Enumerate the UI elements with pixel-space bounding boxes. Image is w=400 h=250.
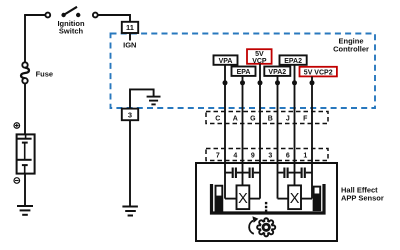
capacitor C-C — [278, 168, 295, 179]
svg-text:X: X — [290, 191, 300, 207]
wire 5V VCP2 (w6) — [311, 76, 313, 198]
svg-text:B: B — [268, 115, 273, 122]
magnet M2 (right, lower pole filled) — [314, 187, 321, 211]
wire VPA2 (w4) — [277, 76, 279, 199]
wire: stub into hall element 2 left — [278, 198, 289, 200]
net label EPA — [232, 67, 256, 77]
svg-text:VPA2: VPA2 — [268, 69, 286, 76]
svg-text:F: F — [303, 115, 308, 122]
wire VPA (w1) — [224, 64, 226, 198]
magnet yoke bracket — [212, 184, 325, 213]
svg-text:A: A — [233, 115, 238, 122]
svg-text:C: C — [215, 115, 220, 122]
capacitor C-D — [295, 168, 313, 179]
wire: stub into hall element 1 right — [249, 198, 260, 200]
battery BAT1 — [17, 134, 35, 173]
pedal rotation arrow — [249, 216, 258, 234]
battery negative terminal marker — [14, 178, 20, 184]
hall element U1 (X box) — [237, 185, 250, 209]
wire: battery positive feed (vertical left) — [24, 15, 26, 63]
svg-text:6: 6 — [286, 152, 290, 159]
svg-text:3: 3 — [268, 152, 272, 159]
svg-text:Controller: Controller — [333, 44, 369, 53]
net label VPA2 — [264, 67, 290, 77]
wire: stub into hall element 1 left — [225, 198, 237, 200]
wire: switch to pin 11 — [98, 15, 130, 22]
junction on wire EPA2 — [292, 80, 297, 85]
svg-text:1: 1 — [303, 152, 307, 159]
junction on wire VPA — [223, 80, 228, 85]
wire: pin 3 to chassis ground — [129, 120, 131, 206]
connector C1 (controller side) — [206, 112, 328, 124]
svg-text:11: 11 — [126, 23, 134, 32]
hall element U2 (X box) — [288, 185, 301, 209]
net label EPA2 — [280, 55, 307, 65]
magnet M1 (left, lower pole filled) — [216, 186, 223, 211]
svg-text:4: 4 — [233, 152, 237, 159]
wire 5V VCP (w3) — [259, 64, 261, 199]
ground (chassis, below pin 3) — [122, 207, 137, 216]
svg-text:VPA: VPA — [219, 58, 233, 65]
svg-text:G: G — [250, 115, 256, 122]
svg-text:APP Sensor: APP Sensor — [341, 194, 384, 203]
junction on wire 5V VCP2 — [310, 80, 315, 85]
capacitor C-A — [225, 168, 243, 179]
svg-text:3: 3 — [128, 110, 132, 119]
wire EPA (w2) — [242, 76, 244, 186]
wire: battery to ground — [24, 174, 26, 206]
net label 5V VCP2 (red) — [300, 67, 337, 77]
junction on wire VPA2 — [275, 80, 280, 85]
svg-text:Switch: Switch — [59, 27, 84, 36]
separation dotted line — [265, 202, 267, 212]
fuse F1 — [21, 62, 29, 83]
engine controller label — [333, 37, 369, 54]
svg-text:7: 7 — [216, 152, 220, 159]
wire: controller internal ground run — [130, 89, 154, 108]
wire: top horizontal to switch — [24, 14, 46, 16]
ground (battery) — [17, 206, 33, 215]
svg-text:9: 9 — [251, 152, 255, 159]
wire: stub into hall element 2 right — [301, 198, 312, 200]
node IGN — [123, 41, 136, 50]
svg-text:J: J — [286, 115, 290, 122]
wire: pin 11 stub into controller — [129, 33, 131, 41]
net label 5V VCP (red) — [247, 49, 272, 65]
pin box 3 — [122, 109, 138, 121]
wire EPA2 (w5) — [294, 64, 296, 186]
battery positive terminal marker — [14, 123, 20, 129]
capacitor C-B — [243, 168, 261, 179]
ignition switch SW1 — [45, 7, 97, 18]
engine controller dashed box — [111, 34, 376, 109]
net label VPA — [214, 55, 238, 65]
ground (controller internal) — [147, 97, 161, 105]
connector C2 (sensor side) — [206, 149, 328, 161]
svg-text:Fuse: Fuse — [36, 70, 54, 79]
svg-text:5V VCP2: 5V VCP2 — [304, 69, 333, 76]
fuse label — [36, 70, 54, 79]
svg-text:IGN: IGN — [123, 41, 136, 50]
pin box 11 — [122, 22, 138, 33]
Hall Effect APP sensor label — [341, 186, 384, 203]
pedal gear — [257, 218, 275, 236]
junction on wire 5V VCP — [258, 80, 263, 85]
wire: fuse to battery — [24, 84, 26, 136]
junction on wire EPA — [240, 80, 245, 85]
svg-text:EPA2: EPA2 — [284, 58, 302, 65]
ignition switch label — [57, 19, 84, 36]
Hall Effect APP sensor box — [196, 163, 337, 241]
svg-text:X: X — [238, 191, 248, 207]
svg-text:VCP: VCP — [252, 58, 267, 65]
svg-text:EPA: EPA — [237, 69, 251, 76]
